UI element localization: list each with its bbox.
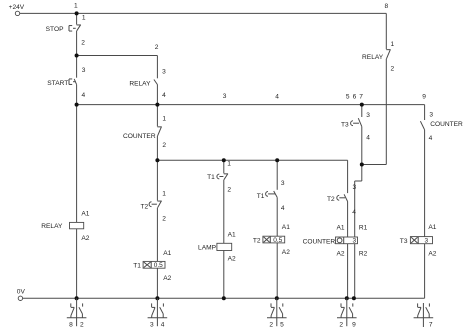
svg-text:COUNTER: COUNTER xyxy=(303,238,336,245)
svg-text:4: 4 xyxy=(281,205,285,212)
svg-text:4: 4 xyxy=(366,135,370,142)
svg-text:T2: T2 xyxy=(253,238,261,245)
svg-text:8: 8 xyxy=(384,3,388,10)
svg-text:COUNTER: COUNTER xyxy=(123,133,156,140)
svg-text:2: 2 xyxy=(269,322,273,329)
svg-text:3: 3 xyxy=(82,67,86,74)
svg-text:4: 4 xyxy=(352,209,356,216)
svg-text:3: 3 xyxy=(366,112,370,119)
svg-text:6: 6 xyxy=(353,94,357,101)
svg-text:A1: A1 xyxy=(228,232,236,239)
svg-text:T1: T1 xyxy=(257,193,265,200)
svg-text:RELAY: RELAY xyxy=(41,223,63,230)
svg-text:2: 2 xyxy=(80,322,84,329)
svg-text:A2: A2 xyxy=(228,255,236,262)
svg-text:4: 4 xyxy=(82,92,86,99)
svg-text:START: START xyxy=(47,80,68,87)
svg-text:A1: A1 xyxy=(337,224,345,231)
svg-text:T1: T1 xyxy=(207,174,215,181)
svg-text:R2: R2 xyxy=(359,250,368,257)
svg-text:A1: A1 xyxy=(282,224,290,231)
svg-text:+24V: +24V xyxy=(9,4,25,11)
svg-text:3: 3 xyxy=(281,180,285,187)
svg-text:T1: T1 xyxy=(133,262,141,269)
svg-text:T2: T2 xyxy=(327,196,335,203)
svg-text:T3: T3 xyxy=(400,238,408,245)
svg-text:7: 7 xyxy=(359,94,363,101)
svg-text:0V: 0V xyxy=(17,289,26,296)
svg-text:RELAY: RELAY xyxy=(362,54,384,61)
svg-text:9: 9 xyxy=(352,322,356,329)
svg-text:0.5: 0.5 xyxy=(273,237,282,244)
svg-text:3: 3 xyxy=(150,322,154,329)
svg-text:1: 1 xyxy=(162,191,166,198)
svg-text:1: 1 xyxy=(227,160,231,167)
svg-text:1: 1 xyxy=(74,2,78,9)
svg-text:4: 4 xyxy=(162,92,166,99)
svg-text:8: 8 xyxy=(69,322,73,329)
svg-text:2: 2 xyxy=(391,65,395,72)
svg-text:4: 4 xyxy=(275,93,279,100)
svg-text:COUNTER: COUNTER xyxy=(430,121,463,128)
svg-text:A2: A2 xyxy=(428,251,436,258)
svg-text:2: 2 xyxy=(155,44,159,51)
svg-text:1: 1 xyxy=(82,14,86,21)
svg-text:5: 5 xyxy=(346,94,350,101)
svg-text:LAMP: LAMP xyxy=(198,245,217,252)
svg-text:2: 2 xyxy=(339,322,343,329)
svg-text:STOP: STOP xyxy=(46,26,64,33)
svg-text:7: 7 xyxy=(429,322,433,329)
svg-text:5: 5 xyxy=(280,322,284,329)
svg-text:A1: A1 xyxy=(81,211,89,218)
svg-text:2: 2 xyxy=(81,39,85,46)
svg-text:3: 3 xyxy=(353,184,357,191)
svg-text:A1: A1 xyxy=(428,224,436,231)
svg-text:2: 2 xyxy=(162,142,166,149)
svg-text:3: 3 xyxy=(429,112,433,119)
svg-text:2: 2 xyxy=(162,216,166,223)
svg-text:T2: T2 xyxy=(140,203,148,210)
svg-text:4: 4 xyxy=(161,322,165,329)
svg-text:3: 3 xyxy=(424,238,428,245)
svg-text:1: 1 xyxy=(162,116,166,123)
svg-text:0.5: 0.5 xyxy=(154,262,163,269)
svg-text:4: 4 xyxy=(429,135,433,142)
svg-text:3: 3 xyxy=(162,69,166,76)
svg-text:A2: A2 xyxy=(163,275,171,282)
svg-text:R1: R1 xyxy=(359,224,368,231)
svg-text:RELAY: RELAY xyxy=(129,80,151,87)
svg-text:1: 1 xyxy=(391,41,395,48)
svg-text:3: 3 xyxy=(352,238,356,245)
svg-text:A2: A2 xyxy=(282,249,290,256)
svg-text:9: 9 xyxy=(422,94,426,101)
svg-text:A2: A2 xyxy=(337,250,345,257)
svg-text:2: 2 xyxy=(227,187,231,194)
svg-text:A1: A1 xyxy=(163,250,171,257)
svg-text:T3: T3 xyxy=(341,121,349,128)
svg-text:A2: A2 xyxy=(81,235,89,242)
svg-text:3: 3 xyxy=(223,93,227,100)
